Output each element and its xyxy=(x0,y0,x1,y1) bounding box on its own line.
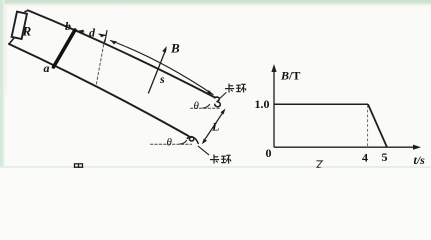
svg-text:B/T: B/T xyxy=(280,69,300,83)
d dimension arrow xyxy=(78,30,107,38)
svg-text:s: s xyxy=(159,72,165,86)
svg-text:t/s: t/s xyxy=(414,153,426,167)
svg-text:0: 0 xyxy=(266,146,272,160)
top snap-ring label leader line xyxy=(220,93,226,99)
snap-ring curl at bottom rail end xyxy=(187,137,198,144)
graph axes xyxy=(271,64,421,150)
svg-text:R: R xyxy=(22,24,32,39)
B plateau line xyxy=(274,103,368,105)
resistor R body xyxy=(12,12,27,39)
svg-text:d: d xyxy=(89,26,96,40)
L dimension line xyxy=(202,109,226,145)
wire bottom rail to resistor xyxy=(9,38,15,45)
top rail xyxy=(28,10,215,97)
svg-text:L: L xyxy=(211,120,219,134)
caption 甲 (partial, drawn strokes) xyxy=(75,164,83,171)
wire top rail to resistor xyxy=(25,10,28,11)
svg-text:1.0: 1.0 xyxy=(255,97,270,111)
B field arrow xyxy=(149,46,167,93)
bottom horizontal dashed reference line xyxy=(151,143,192,145)
bottom angle arc xyxy=(180,140,187,144)
B ramp down line xyxy=(368,104,387,147)
y axis xyxy=(273,70,275,147)
snap-ring curl at top rail end xyxy=(214,97,220,107)
dashed line solid top tick xyxy=(105,31,107,43)
bottom rail xyxy=(9,44,189,136)
bottom snap-ring label leader line xyxy=(198,146,209,155)
caption 乙 (partial, drawn strokes) xyxy=(317,161,323,169)
label 卡环 bottom (drawn strokes) xyxy=(210,155,231,164)
label 卡环 top (drawn strokes) xyxy=(225,84,246,93)
svg-text:θ: θ xyxy=(194,100,200,112)
svg-text:4: 4 xyxy=(362,151,368,165)
svg-text:a: a xyxy=(44,61,50,75)
dashed position line xyxy=(96,40,105,86)
top angle arc xyxy=(203,104,210,108)
conducting bar ab xyxy=(54,30,76,67)
dashed drop line at t=4 xyxy=(367,105,369,147)
x axis xyxy=(274,146,415,148)
s dimension arrow xyxy=(111,41,214,95)
svg-text:b: b xyxy=(65,19,71,33)
svg-text:B: B xyxy=(170,41,180,56)
svg-text:θ: θ xyxy=(167,137,173,149)
top horizontal dashed reference line xyxy=(191,107,221,109)
svg-text:5: 5 xyxy=(382,150,388,164)
